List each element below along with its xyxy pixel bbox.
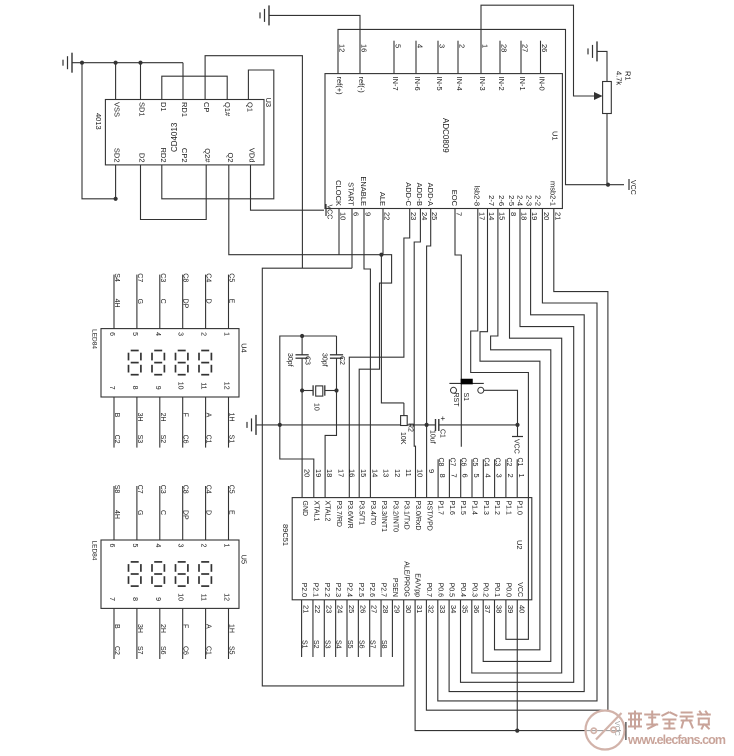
svg-text:3: 3	[438, 44, 447, 48]
svg-text:29: 29	[392, 605, 401, 613]
junction rail-left	[278, 423, 282, 427]
svg-text:B: B	[113, 624, 120, 629]
wire: crystal left to GND pin20	[301, 391, 303, 498]
svg-text:2H: 2H	[159, 624, 166, 633]
svg-text:C6: C6	[182, 646, 189, 655]
svg-text:IN-2: IN-2	[497, 77, 506, 91]
VCC symbol at U1 clock corner	[326, 204, 333, 219]
svg-text:S7: S7	[136, 646, 143, 655]
svg-text:4H: 4H	[113, 299, 120, 308]
U2 top pin numbers	[303, 469, 527, 478]
U1 top pin names	[335, 77, 547, 96]
svg-text:C2: C2	[338, 356, 345, 365]
svg-text:P3.5/T1: P3.5/T1	[358, 501, 365, 526]
svg-text:D: D	[205, 510, 212, 515]
svg-text:P0.0: P0.0	[504, 583, 511, 598]
svg-text:ADC0809: ADC0809	[441, 118, 450, 153]
svg-text:S3: S3	[136, 435, 143, 444]
svg-text:C6: C6	[182, 435, 189, 444]
svg-text:P2.5: P2.5	[357, 583, 364, 598]
svg-text:C5: C5	[228, 273, 235, 282]
svg-text:P2.3: P2.3	[334, 583, 341, 598]
svg-text:S5: S5	[228, 646, 235, 655]
svg-text:2: 2	[200, 544, 207, 548]
svg-text:RD1: RD1	[180, 102, 189, 117]
wire: ALE/START net to 89C51 ALE pin30	[262, 268, 403, 686]
wire: CP bridge to ALE net	[205, 56, 302, 269]
junction dots on ground rail	[80, 61, 84, 65]
ground G1 top-left	[63, 53, 72, 73]
svg-text:28: 28	[381, 605, 390, 613]
wire: data 2-4 pin18 to P0.4 pin35	[461, 209, 574, 683]
U1 top pin numbers	[338, 44, 550, 52]
svg-text:23: 23	[409, 212, 418, 220]
svg-text:39: 39	[506, 605, 515, 613]
svg-text:27: 27	[521, 44, 530, 52]
svg-text:17: 17	[336, 469, 345, 477]
svg-text:P1.1: P1.1	[504, 501, 511, 516]
wire: data 2-2 pin20 to P0.6 pin33	[438, 209, 597, 701]
svg-text:START: START	[347, 182, 356, 206]
svg-text:G: G	[136, 510, 143, 515]
svg-text:D2: D2	[138, 153, 147, 163]
svg-text:11: 11	[200, 594, 207, 601]
svg-text:S6: S6	[357, 640, 364, 649]
U5 top pins with net labels	[108, 485, 235, 548]
svg-text:P2.1: P2.1	[311, 583, 318, 598]
svg-text:Q2#: Q2#	[203, 148, 212, 163]
wire: VCC pin40 down	[516, 600, 518, 731]
svg-text:DP: DP	[182, 510, 189, 520]
capacitor C2 30pf	[321, 336, 346, 391]
svg-text:P2.7: P2.7	[380, 583, 387, 598]
ground G3 above R1	[588, 41, 597, 61]
wire: ref(-) pin16 to ground	[269, 15, 360, 73]
svg-text:C: C	[159, 510, 166, 515]
svg-text:LED84: LED84	[91, 541, 98, 561]
U3 bottom pin names	[113, 147, 257, 163]
svg-text:18: 18	[325, 469, 334, 477]
svg-text:2H: 2H	[159, 413, 166, 422]
svg-text:25: 25	[347, 605, 356, 613]
svg-text:P0.3: P0.3	[470, 583, 477, 598]
wire: ADD-C pin23 to P3.6 pin16	[349, 209, 409, 498]
svg-text:G: G	[136, 299, 143, 304]
svg-text:3: 3	[495, 474, 504, 478]
junction ALE net	[379, 253, 383, 257]
svg-text:7: 7	[449, 474, 458, 478]
svg-text:P3.4/T0: P3.4/T0	[369, 501, 376, 526]
switch S1 RST pushbutton	[449, 379, 483, 407]
svg-text:3: 3	[177, 332, 184, 336]
U1 bottom pin numbers	[339, 212, 563, 220]
svg-text:RST: RST	[452, 393, 459, 408]
wire: RST node to pin9	[426, 425, 428, 498]
svg-text:19: 19	[314, 469, 323, 477]
svg-text:12: 12	[393, 469, 402, 477]
U5 bottom pins with net labels	[108, 593, 235, 659]
svg-text:VDd: VDd	[248, 148, 257, 163]
svg-text:www.elecfans.com: www.elecfans.com	[627, 733, 726, 747]
svg-text:3H: 3H	[136, 413, 143, 422]
svg-text:35: 35	[461, 605, 470, 613]
svg-text:12: 12	[223, 593, 230, 601]
svg-text:ADD-B: ADD-B	[415, 183, 424, 206]
svg-text:2: 2	[200, 332, 207, 336]
svg-text:2: 2	[506, 474, 515, 478]
svg-text:P0.4: P0.4	[459, 583, 466, 598]
VCC symbol right of R1	[629, 179, 636, 195]
wire: data lsb2-8 pin17 to P0.0 pin39	[471, 209, 529, 640]
svg-text:msb2-1: msb2-1	[549, 181, 558, 206]
svg-text:ADD-A: ADD-A	[426, 183, 435, 206]
svg-text:10: 10	[416, 469, 425, 477]
svg-text:5: 5	[131, 332, 138, 336]
svg-text:9: 9	[154, 386, 161, 390]
svg-text:17: 17	[477, 212, 486, 220]
svg-text:P3.2/INT0: P3.2/INT0	[391, 501, 398, 533]
svg-text:15: 15	[359, 469, 368, 477]
svg-text:EA/Vpp: EA/Vpp	[414, 573, 421, 597]
svg-text:4: 4	[483, 474, 492, 478]
svg-text:5: 5	[472, 474, 481, 478]
svg-text:26: 26	[540, 44, 549, 52]
svg-text:S2: S2	[312, 640, 319, 649]
svg-text:30: 30	[404, 605, 413, 613]
svg-text:24: 24	[336, 605, 345, 613]
svg-text:ALE/PROG: ALE/PROG	[402, 561, 409, 597]
svg-text:VCC: VCC	[629, 180, 636, 195]
svg-text:1H: 1H	[228, 624, 235, 633]
svg-text:C2: C2	[113, 435, 120, 444]
svg-text:6: 6	[108, 332, 115, 336]
wire: reset/gnd rail	[256, 424, 518, 426]
svg-text:11: 11	[200, 382, 207, 389]
svg-text:2: 2	[458, 44, 467, 48]
svg-text:12: 12	[223, 382, 230, 390]
svg-text:9: 9	[154, 597, 161, 601]
watermark chinese glyph blocks	[629, 712, 710, 729]
svg-text:P3.0/RxD: P3.0/RxD	[414, 501, 421, 531]
wire: data 2-6 pin15 to P0.2 pin37	[483, 209, 551, 662]
U1 input stub pins IN-7..IN-4	[394, 41, 458, 74]
svg-text:P0.1: P0.1	[493, 583, 500, 598]
wire: START pin6 to ALE net	[351, 209, 353, 269]
wire: Q2 to ADC clock	[229, 165, 382, 255]
svg-text:P3.3/INT1: P3.3/INT1	[380, 501, 387, 533]
svg-text:GND: GND	[301, 501, 308, 517]
svg-text:EOC: EOC	[450, 190, 459, 207]
svg-text:40: 40	[517, 605, 526, 613]
capacitor C3 30pf	[286, 336, 311, 391]
svg-text:lsb2-8: lsb2-8	[473, 186, 482, 206]
U2 P1 port stubs with C net labels	[437, 458, 523, 498]
svg-text:E: E	[228, 299, 235, 304]
svg-text:27: 27	[370, 605, 379, 613]
svg-text:19: 19	[530, 212, 539, 220]
svg-text:SD1: SD1	[138, 102, 147, 117]
svg-text:8: 8	[131, 597, 138, 601]
wire: ground loop to SD2	[82, 63, 116, 199]
svg-text:C2: C2	[113, 646, 120, 655]
svg-text:36: 36	[472, 605, 481, 613]
svg-text:8: 8	[131, 386, 138, 390]
svg-text:1: 1	[517, 474, 526, 478]
svg-text:P0.2: P0.2	[482, 583, 489, 598]
svg-text:R2: R2	[407, 423, 414, 432]
junction rail-RST	[425, 423, 429, 427]
wire: D2 to Q2# feedback	[141, 165, 207, 220]
svg-text:C4: C4	[205, 273, 212, 282]
ground G2 top-center	[260, 5, 269, 25]
svg-text:C3: C3	[494, 458, 501, 467]
svg-text:20: 20	[542, 212, 551, 220]
svg-text:C5: C5	[228, 485, 235, 494]
wire: data msb2-1 pin21 to P0.7 pin32	[426, 209, 608, 711]
svg-text:P3.7/RD: P3.7/RD	[335, 501, 342, 527]
svg-text:18: 18	[520, 212, 529, 220]
ground G4 left of reset rail	[247, 415, 256, 435]
svg-text:F: F	[182, 624, 189, 628]
svg-text:7: 7	[455, 212, 464, 216]
svg-text:26: 26	[358, 605, 367, 613]
resistor R2 10K	[399, 403, 414, 445]
wire: Q1 to RD2 bridge	[162, 70, 274, 199]
svg-text:2-7: 2-7	[487, 195, 496, 206]
svg-text:Q1: Q1	[245, 102, 254, 112]
svg-text:30pf: 30pf	[286, 353, 293, 367]
U2 PSEN stub pin29	[391, 600, 393, 657]
svg-text:P1.2: P1.2	[493, 501, 500, 516]
svg-text:C8: C8	[182, 485, 189, 494]
svg-text:VCC: VCC	[326, 205, 333, 220]
wire: ALE pin22	[382, 209, 384, 255]
svg-text:16: 16	[348, 469, 357, 477]
svg-text:P0.5: P0.5	[448, 583, 455, 598]
svg-text:37: 37	[483, 605, 492, 613]
svg-text:3H: 3H	[136, 624, 143, 633]
svg-text:P3.1/TxD: P3.1/TxD	[403, 501, 410, 530]
wire: cap ground rail	[280, 336, 337, 425]
svg-text:LED84: LED84	[91, 329, 98, 349]
wire: ground rail to RD1	[72, 63, 183, 100]
svg-text:C1: C1	[205, 646, 212, 655]
svg-text:1: 1	[223, 332, 230, 336]
svg-text:20: 20	[303, 469, 312, 477]
svg-text:C8: C8	[182, 273, 189, 282]
svg-text:1H: 1H	[228, 413, 235, 422]
wire: R1 top to ground	[597, 51, 607, 81]
svg-text:VCC: VCC	[516, 582, 523, 597]
svg-text:IN-4: IN-4	[455, 77, 464, 91]
svg-text:2-5: 2-5	[507, 195, 516, 206]
svg-text:RST/VPD: RST/VPD	[425, 501, 432, 531]
wire: data 2-5 pin8 to P0.3 pin36	[472, 209, 562, 674]
svg-text:C: C	[159, 299, 166, 304]
svg-text:P1.0: P1.0	[516, 501, 523, 516]
svg-text:5: 5	[394, 44, 403, 48]
wire: ADD-B pin24 to P3.0 pin10	[414, 209, 420, 498]
svg-text:U2: U2	[515, 540, 524, 550]
svg-text:13: 13	[382, 469, 391, 477]
svg-text:F: F	[182, 413, 189, 417]
wire: ALE net pulldown to R2	[381, 255, 404, 403]
svg-text:9: 9	[427, 469, 436, 473]
potentiometer R1 body	[603, 71, 633, 114]
svg-text:P0.7: P0.7	[425, 583, 432, 598]
svg-text:2-3: 2-3	[525, 195, 534, 206]
wire: CLOCK pin10 to clock net	[338, 209, 340, 255]
svg-text:DP: DP	[182, 299, 189, 309]
wire: crystal right to XTAL2 pin18	[325, 391, 336, 498]
svg-text:U4: U4	[239, 343, 248, 353]
svg-text:10K: 10K	[399, 432, 406, 445]
svg-text:33: 33	[438, 605, 447, 613]
svg-text:P1.5: P1.5	[459, 501, 466, 516]
svg-text:S1: S1	[462, 393, 469, 402]
junction VCC line	[515, 729, 519, 733]
wire: ref(+) pin12 to VCC rail	[338, 29, 624, 184]
svg-text:A: A	[205, 413, 212, 418]
svg-text:22: 22	[383, 212, 392, 220]
svg-text:S7: S7	[369, 640, 376, 649]
svg-text:D: D	[205, 299, 212, 304]
svg-text:IN-5: IN-5	[435, 77, 444, 91]
svg-text:C7: C7	[136, 485, 143, 494]
svg-text:CD4013: CD4013	[170, 122, 179, 152]
svg-text:8: 8	[509, 212, 518, 216]
VCC symbol bottom right	[613, 721, 626, 740]
U2 bottom pin numbers	[302, 605, 527, 613]
svg-text:4013: 4013	[94, 113, 103, 130]
svg-text:IN-3: IN-3	[478, 77, 487, 91]
svg-text:RD2: RD2	[159, 147, 168, 162]
svg-text:B: B	[113, 413, 120, 418]
svg-text:P2.6: P2.6	[368, 583, 375, 598]
svg-text:IN-6: IN-6	[413, 77, 422, 91]
svg-text:C1: C1	[439, 429, 446, 438]
svg-text:Q1#: Q1#	[223, 102, 232, 117]
svg-text:ref(-): ref(-)	[357, 77, 366, 94]
svg-text:7: 7	[108, 386, 115, 390]
svg-text:ALE: ALE	[378, 192, 387, 206]
svg-text:ref(+): ref(+)	[335, 77, 344, 96]
U2 top pin names	[301, 501, 523, 533]
svg-text:10: 10	[177, 382, 184, 390]
svg-text:S5: S5	[346, 640, 353, 649]
svg-text:SD2: SD2	[113, 148, 122, 163]
wire: VDd to VCC	[251, 165, 325, 210]
junction crystal left	[300, 388, 304, 392]
svg-text:10: 10	[313, 403, 320, 411]
svg-text:U3: U3	[264, 98, 273, 108]
svg-text:S1: S1	[301, 640, 308, 649]
junction R1/VCC rail	[606, 183, 610, 187]
wire: IN-3 pin1 to R1 wiper	[481, 5, 598, 96]
U4 bottom pins with net labels	[108, 382, 235, 448]
svg-text:PSEN: PSEN	[391, 578, 398, 597]
svg-text:6: 6	[352, 212, 361, 216]
R1 wiper arrow	[594, 92, 603, 100]
U4 top pins with net labels	[108, 273, 235, 336]
U4 digit segments	[129, 351, 212, 375]
junction crystal right	[334, 388, 338, 392]
svg-text:P0.6: P0.6	[436, 583, 443, 598]
svg-text:CLOCK: CLOCK	[334, 180, 343, 206]
svg-text:10uf: 10uf	[429, 430, 436, 444]
svg-text:32: 32	[426, 605, 435, 613]
wire: ALE branch to P3.5 pin15	[359, 255, 391, 498]
svg-text:P3.6/WR: P3.6/WR	[346, 501, 353, 529]
svg-text:6: 6	[108, 544, 115, 548]
wire: data 2-7 pin14 to P0.1 pin38	[480, 209, 540, 650]
svg-text:C1: C1	[205, 435, 212, 444]
svg-text:23: 23	[324, 605, 333, 613]
svg-text:7: 7	[108, 597, 115, 601]
svg-text:P2.4: P2.4	[346, 583, 353, 598]
svg-text:2-4: 2-4	[516, 195, 525, 206]
svg-text:P1.6: P1.6	[448, 501, 455, 516]
svg-text:24: 24	[420, 212, 429, 220]
svg-text:IN-1: IN-1	[518, 77, 527, 91]
IC U4 LED84 display body	[91, 329, 249, 397]
wire: D1 to Q1# feedback	[162, 76, 227, 99]
svg-text:P1.7: P1.7	[437, 501, 444, 516]
svg-text:P1.3: P1.3	[482, 501, 489, 516]
svg-text:10: 10	[339, 212, 348, 220]
wire: S1 to VCC tap	[484, 390, 518, 425]
svg-text:2-2: 2-2	[534, 195, 543, 206]
svg-text:16: 16	[360, 44, 369, 52]
svg-text:S3: S3	[323, 640, 330, 649]
svg-text:D1: D1	[159, 102, 168, 112]
svg-text:CP: CP	[202, 102, 211, 112]
svg-text:34: 34	[449, 605, 458, 613]
svg-text:89C51: 89C51	[281, 524, 290, 546]
svg-text:C3: C3	[159, 273, 166, 282]
svg-text:U5: U5	[239, 555, 248, 565]
svg-text:U1: U1	[551, 131, 560, 141]
svg-text:31: 31	[415, 605, 424, 613]
svg-text:S8: S8	[380, 640, 387, 649]
wire: ADD-A pin25 to RST pin9	[427, 209, 431, 425]
svg-text:S6: S6	[159, 646, 166, 655]
svg-text:C3: C3	[159, 485, 166, 494]
svg-text:C7: C7	[136, 273, 143, 282]
U1 input stub pins IN-2..IN-0	[500, 41, 541, 74]
U3 top pin names	[113, 102, 255, 117]
svg-text:IN-0: IN-0	[538, 77, 547, 91]
svg-text:4: 4	[154, 332, 161, 336]
svg-text:C4: C4	[482, 458, 489, 467]
svg-text:14: 14	[487, 212, 496, 220]
svg-text:C1: C1	[516, 458, 523, 467]
svg-text:28: 28	[500, 44, 509, 52]
U5 digit segments	[129, 562, 212, 586]
svg-text:+: +	[441, 414, 446, 423]
svg-text:21: 21	[302, 605, 311, 613]
svg-text:4.7k: 4.7k	[615, 71, 624, 85]
svg-text:12: 12	[338, 44, 347, 52]
svg-text:C5: C5	[471, 458, 478, 467]
svg-text:9: 9	[364, 212, 373, 216]
svg-text:P2.2: P2.2	[323, 583, 330, 598]
wire: data 2-3 pin19 to P0.5 pin34	[449, 209, 584, 692]
svg-text:C8: C8	[437, 458, 444, 467]
svg-text:6: 6	[461, 474, 470, 478]
capacitor C1 10uf electrolytic	[429, 414, 446, 444]
IC U3 CD4013 body	[94, 98, 273, 165]
